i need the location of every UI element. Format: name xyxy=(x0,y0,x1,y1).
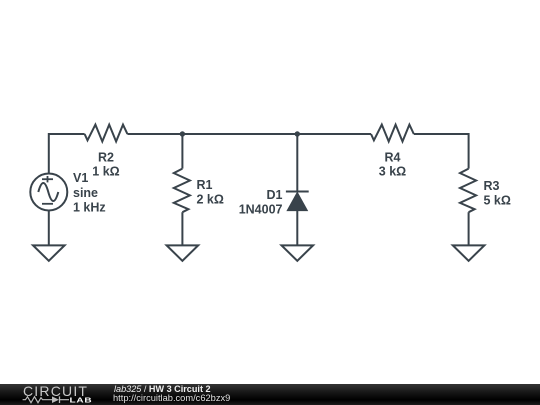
wire R2 to node A xyxy=(127,133,182,135)
ground for R1 xyxy=(167,245,199,260)
ground for V1 xyxy=(33,245,65,260)
svg-text:1 kHz: 1 kHz xyxy=(73,201,106,215)
wire node A to R1 xyxy=(181,134,183,169)
svg-text:5 kΩ: 5 kΩ xyxy=(484,194,511,208)
svg-text:2 kΩ: 2 kΩ xyxy=(197,193,224,207)
label R3 value 5 kOhm xyxy=(484,179,511,208)
wire D1 anode to ground xyxy=(296,211,298,246)
ground for D1 xyxy=(282,245,314,260)
resistor R3 xyxy=(460,169,476,213)
label D1 value 1N4007 xyxy=(239,188,283,216)
wire R4 right and down to R3 xyxy=(414,134,469,169)
wire node B down to D1 cathode xyxy=(296,134,298,192)
svg-text:R4: R4 xyxy=(385,151,401,165)
svg-text:sine: sine xyxy=(73,186,98,200)
wire node A to node B xyxy=(182,133,297,135)
diode D1 xyxy=(286,192,309,211)
wire node B to R4 xyxy=(297,133,371,135)
label R1 value 2 kOhm xyxy=(197,178,224,207)
svg-text:R3: R3 xyxy=(484,179,500,193)
svg-text:V1: V1 xyxy=(73,171,88,185)
svg-text:D1: D1 xyxy=(267,188,283,202)
CircuitLab logo resistor-diode glyph xyxy=(23,396,69,403)
resistor R4 xyxy=(371,125,414,142)
footer url xyxy=(113,393,230,403)
resistor R2 xyxy=(85,125,128,142)
node B junction dot xyxy=(295,131,300,136)
footer bar xyxy=(0,384,540,405)
label R2 value 1 kOhm xyxy=(92,151,119,179)
CircuitLab logo wordmark LAB xyxy=(70,396,93,404)
node A junction dot xyxy=(180,131,185,136)
resistor R1 xyxy=(174,169,190,213)
svg-text:R2: R2 xyxy=(98,151,114,165)
wire from V1 top up and right to R2 xyxy=(49,134,85,174)
ground for R3 xyxy=(453,245,485,260)
svg-text:1N4007: 1N4007 xyxy=(239,202,283,216)
svg-text:3 kΩ: 3 kΩ xyxy=(379,165,406,179)
svg-text:R1: R1 xyxy=(197,178,213,192)
svg-text:1 kΩ: 1 kΩ xyxy=(92,165,119,179)
wire V1 to ground xyxy=(48,210,50,245)
wire R3 to ground xyxy=(468,212,470,245)
label V1 sine 1 kHz xyxy=(73,171,106,215)
svg-text:LAB: LAB xyxy=(70,396,93,404)
voltage source V1 xyxy=(30,174,67,211)
label R4 value 3 kOhm xyxy=(379,151,406,179)
footer title lab325 / HW 3 Circuit 2 xyxy=(114,384,211,394)
CircuitLab logo wordmark CIRCUIT xyxy=(23,383,88,399)
svg-text:http://circuitlab.com/c62bzx9: http://circuitlab.com/c62bzx9 xyxy=(113,393,230,403)
wire R1 to ground xyxy=(181,212,183,245)
